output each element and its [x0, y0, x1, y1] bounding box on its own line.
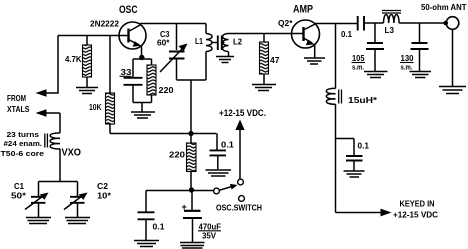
- svg-text:60*: 60*: [157, 39, 170, 48]
- wire emitter bar: [133, 58, 152, 60]
- svg-text:Q2*: Q2*: [278, 19, 294, 28]
- arrow keyed-in: [381, 209, 392, 217]
- capacitor 0.1 supply bypass: [146, 190, 189, 192]
- svg-text:C2: C2: [97, 182, 109, 191]
- capacitor 0.1 amp bypass: [336, 139, 355, 156]
- svg-text:10*: 10*: [97, 192, 112, 201]
- ground g10: [206, 170, 232, 176]
- svg-text:s.m.: s.m.: [401, 63, 413, 72]
- svg-text:KEYED IN: KEYED IN: [400, 200, 435, 209]
- svg-text:50*: 50*: [11, 192, 27, 201]
- wire to switch: [194, 190, 214, 192]
- resistor 47: [263, 34, 265, 43]
- arrow from-xtals-2: [36, 109, 47, 116]
- ground g6: [364, 72, 388, 78]
- capacitor coupling L1-L2: [212, 42, 217, 44]
- ground g5: [304, 58, 325, 64]
- capacitor 470uF 35V: [191, 193, 193, 211]
- svg-text:35V: 35V: [202, 232, 217, 241]
- wire keyed-in: [336, 212, 383, 214]
- wire tank tap: [190, 80, 192, 134]
- svg-text:AMP: AMP: [293, 4, 313, 16]
- svg-text:23 turns: 23 turns: [7, 130, 40, 139]
- svg-text:2N2222: 2N2222: [90, 20, 120, 29]
- svg-text:15uH*: 15uH*: [348, 95, 378, 105]
- ground gC1: [26, 218, 51, 224]
- node emitter junction: [139, 55, 144, 60]
- wire tank bottom: [177, 79, 207, 81]
- svg-text:220: 220: [169, 151, 186, 160]
- wire osc feedback: [110, 133, 217, 135]
- node supply junction: [189, 187, 194, 192]
- svg-text:L3: L3: [385, 26, 395, 35]
- ground g2: [131, 112, 155, 118]
- inductor 15uH choke: [326, 88, 335, 104]
- svg-text:33: 33: [121, 68, 133, 77]
- ground g3: [216, 57, 234, 63]
- svg-text:FROM: FROM: [7, 94, 26, 103]
- svg-text:0.1: 0.1: [221, 140, 234, 150]
- ground g8: [439, 87, 466, 94]
- svg-text:s.m.: s.m.: [352, 63, 364, 72]
- resistor 220 osc: [151, 59, 153, 65]
- ground g7: [410, 72, 432, 78]
- svg-text:VXO: VXO: [62, 147, 82, 159]
- svg-text:+12-15 VDC.: +12-15 VDC.: [219, 108, 266, 118]
- wire bias top: [58, 35, 129, 37]
- svg-text:L2: L2: [233, 38, 243, 47]
- svg-text:T50-6 core: T50-6 core: [1, 149, 45, 158]
- svg-text:#24 enam.: #24 enam.: [4, 139, 43, 148]
- ground g4: [252, 85, 276, 91]
- ground gC2: [65, 218, 90, 224]
- wire left drop: [46, 36, 58, 94]
- wire base drop: [109, 36, 111, 94]
- wire amp collector: [315, 23, 357, 25]
- svg-text:47: 47: [270, 56, 280, 65]
- svg-text:OSC: OSC: [119, 4, 138, 16]
- ground g12: [134, 241, 159, 247]
- wire L2 to base: [229, 33, 304, 35]
- capacitor 33: [132, 59, 134, 77]
- svg-text:4.7K: 4.7K: [65, 55, 82, 64]
- svg-text:L1: L1: [195, 37, 203, 46]
- wire vxo split: [39, 182, 78, 197]
- capacitor 130 s.m.: [419, 23, 421, 42]
- wire collector: [140, 23, 206, 25]
- node tank tap junction: [188, 131, 193, 136]
- ground g1: [76, 88, 98, 94]
- svg-text:470uF: 470uF: [199, 223, 222, 232]
- resistor 220 supply: [187, 143, 197, 172]
- svg-text:220: 220: [159, 86, 175, 95]
- resistor 4.7K: [86, 36, 88, 46]
- svg-text:OSC.SWITCH: OSC.SWITCH: [216, 204, 262, 213]
- svg-text:+12-15 VDC: +12-15 VDC: [393, 211, 438, 220]
- svg-text:0.1: 0.1: [341, 30, 353, 39]
- resistor 10K: [106, 93, 115, 124]
- svg-text:0.1: 0.1: [153, 223, 166, 232]
- svg-text:0.1: 0.1: [358, 142, 370, 151]
- arrow supply up: [235, 120, 244, 131]
- svg-text:10K: 10K: [89, 103, 102, 112]
- connector ANT: [443, 21, 448, 26]
- svg-text:50-ohm ANT: 50-ohm ANT: [421, 2, 467, 12]
- svg-text:C1: C1: [14, 182, 25, 191]
- capacitor 0.1 osc bypass: [216, 134, 218, 150]
- inductor L3: [382, 11, 401, 14]
- svg-text:XTALS: XTALS: [7, 105, 30, 114]
- arrow from-xtals-1: [36, 89, 47, 96]
- capacitor 105 s.m.: [374, 23, 376, 42]
- wire choke drop: [335, 24, 337, 89]
- switch osc: [238, 179, 244, 185]
- ground g11: [180, 243, 205, 249]
- ground g9: [344, 171, 365, 177]
- wire 33-220 join: [133, 103, 152, 112]
